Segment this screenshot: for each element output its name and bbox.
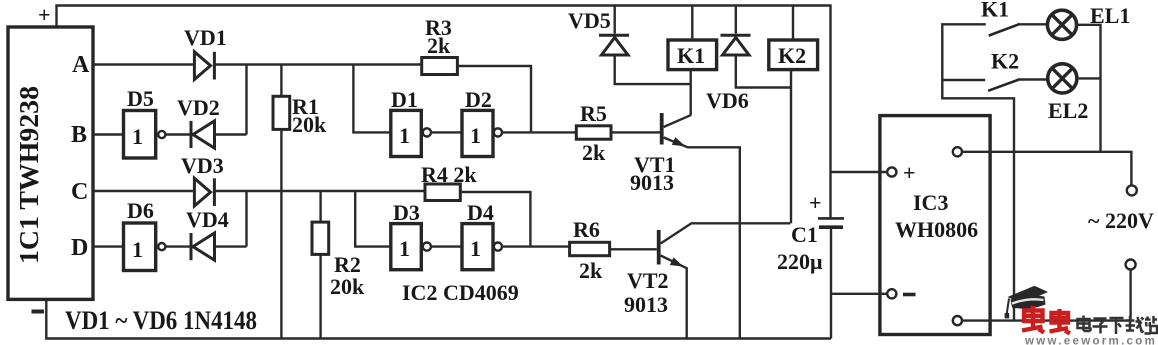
svg-text:VD1 ~ VD6 1N4148: VD1 ~ VD6 1N4148 [65, 305, 257, 335]
svg-text:K1: K1 [677, 43, 705, 68]
svg-text:K2: K2 [778, 43, 806, 68]
svg-text:2k: 2k [427, 33, 451, 58]
svg-text:1: 1 [470, 236, 481, 261]
svg-text:D4: D4 [467, 200, 494, 225]
svg-text:1: 1 [470, 123, 481, 148]
svg-text:VD2: VD2 [177, 95, 220, 120]
svg-text:1: 1 [132, 237, 143, 262]
svg-text:WH0806: WH0806 [895, 217, 978, 242]
svg-text:IC2 CD4069: IC2 CD4069 [402, 280, 519, 305]
svg-text:+: + [903, 160, 916, 185]
svg-text:C: C [71, 179, 88, 205]
svg-text:D5: D5 [127, 86, 154, 111]
svg-text:B: B [71, 122, 87, 148]
svg-text:+: + [809, 190, 822, 215]
svg-text:9013: 9013 [624, 292, 668, 317]
svg-text:D3: D3 [393, 200, 420, 225]
svg-text:220μ: 220μ [777, 249, 823, 274]
svg-text:IC3: IC3 [913, 190, 948, 215]
svg-text:1: 1 [132, 124, 143, 149]
svg-text:EL1: EL1 [1090, 3, 1130, 28]
svg-text:1: 1 [399, 123, 410, 148]
svg-text:www.eeworm.com: www.eeworm.com [1024, 336, 1157, 345]
svg-text:R5: R5 [580, 101, 607, 126]
svg-text:D: D [71, 235, 88, 261]
svg-text:1: 1 [399, 236, 410, 261]
svg-text:VD3: VD3 [181, 153, 224, 178]
svg-text:A: A [72, 52, 90, 78]
svg-text:VD5: VD5 [568, 8, 611, 33]
svg-text:+: + [38, 2, 51, 27]
svg-text:2k: 2k [579, 258, 603, 283]
svg-text:D2: D2 [465, 87, 492, 112]
svg-text:VD4: VD4 [186, 207, 229, 232]
svg-text:D1: D1 [391, 87, 418, 112]
svg-text:VD1: VD1 [184, 25, 227, 50]
svg-text:R4 2k: R4 2k [421, 162, 477, 187]
svg-text:20k: 20k [330, 274, 365, 299]
svg-text:9013: 9013 [630, 170, 674, 195]
svg-text:K1: K1 [981, 0, 1009, 22]
svg-text:~ 220V: ~ 220V [1088, 208, 1154, 233]
svg-text:R6: R6 [573, 217, 600, 242]
svg-text:D6: D6 [127, 198, 154, 223]
svg-text:VT2: VT2 [627, 268, 669, 293]
svg-text:K2: K2 [991, 49, 1019, 74]
svg-text:EL2: EL2 [1048, 98, 1088, 123]
svg-text:20k: 20k [292, 112, 327, 137]
svg-text:VD6: VD6 [706, 88, 749, 113]
svg-text:1C1 TWH9238: 1C1 TWH9238 [14, 86, 44, 264]
svg-text:2k: 2k [582, 140, 606, 165]
svg-text:C1: C1 [791, 222, 818, 247]
